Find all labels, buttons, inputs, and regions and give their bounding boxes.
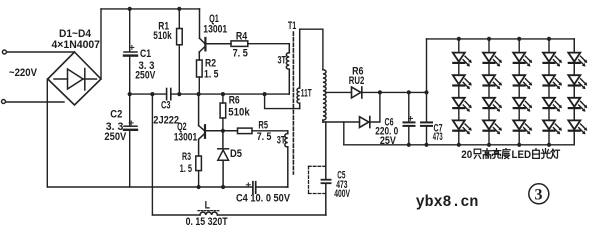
circled 3: [529, 184, 549, 204]
LED D13 col2 row4: [483, 120, 502, 134]
wire bottom rail (left section): [47, 186, 252, 188]
wire mid line right segment: [171, 93, 289, 95]
svg-text:C1: C1: [140, 48, 151, 60]
winding 3T upper (Q1 feedback): [286, 44, 289, 94]
terminal top-left (AC input 1): [2, 50, 6, 54]
wire AC1 to bridge top vertex: [7, 51, 75, 53]
LED D21 col4 row4: [543, 120, 562, 134]
wire bus C1 to mid: [129, 56, 131, 126]
LED D6 col1 row1: [453, 53, 472, 67]
nodes LED bottom rail: [457, 143, 461, 147]
svg-text:400V: 400V: [334, 188, 350, 200]
svg-text:T1: T1: [288, 20, 296, 32]
svg-text:D5: D5: [230, 148, 242, 160]
wire top link 11T to secondary: [300, 29, 323, 69]
node bottom rail / D5: [221, 185, 225, 189]
wire bottom-right rail: [344, 144, 575, 146]
svg-text:1. 5: 1. 5: [204, 68, 219, 80]
LED D11 col2 row2: [483, 75, 502, 89]
node mid / R6: [221, 92, 225, 96]
node mid / R1: [177, 92, 181, 96]
svg-text:RU2: RU2: [349, 75, 365, 87]
wire tap1 to diode RU2: [326, 91, 352, 93]
LED D20 col4 row3: [543, 98, 562, 112]
svg-text:2J222: 2J222: [153, 115, 179, 127]
wire LED column: [488, 39, 490, 145]
LED D23 col5 row2: [568, 75, 587, 89]
node bottom rail / R3: [197, 185, 201, 189]
node top rail / C1 bus: [128, 7, 132, 11]
capacitor C7: [426, 92, 428, 122]
char 白: [533, 149, 540, 159]
svg-text:R4: R4: [236, 30, 248, 42]
capacitor C5 (dashed optional): [322, 122, 331, 215]
LED D7 col1 row2: [453, 75, 472, 89]
svg-text:7. 5: 7. 5: [257, 131, 272, 143]
node Q2 base / R6 / D5: [221, 129, 225, 133]
resistor R5: [238, 128, 253, 134]
svg-text:~220V: ~220V: [9, 67, 38, 79]
wire L branch vertical: [151, 94, 153, 215]
svg-text:13001: 13001: [203, 24, 227, 36]
LED D25 col5 row4: [568, 120, 587, 134]
LED D9 col1 row4: [453, 120, 472, 134]
resistor R4: [231, 41, 248, 47]
node rail1 / lower diode: [378, 90, 382, 94]
transistor Q1: [199, 9, 231, 60]
wire 11T bottom to mid node: [265, 94, 300, 109]
svg-text:1. 5: 1. 5: [180, 163, 192, 175]
capacitor C2: [124, 121, 137, 130]
LED D10 col2 row1: [483, 53, 502, 67]
inductor L: [200, 212, 217, 215]
diode R6 RU2: [352, 87, 362, 98]
wire tap2 tee down to bottom-right rail: [343, 122, 345, 145]
svg-text:R5: R5: [258, 120, 268, 132]
node mid line / L branch: [150, 92, 154, 96]
diode lower: [360, 117, 370, 128]
nodes LED top rail: [457, 37, 461, 41]
svg-text:LED: LED: [512, 149, 532, 161]
node mid / Q1 emitter R2 and Q2 collector: [197, 92, 201, 96]
LED D19 col4 row2: [543, 75, 562, 89]
wire C1-C2 bus upper: [129, 9, 131, 52]
node mid / 11T return: [263, 92, 267, 96]
wire rail1: [362, 91, 427, 93]
winding 3T lower (Q2 feedback): [285, 131, 288, 187]
wire LED column: [573, 39, 575, 145]
wire lower diode up to rail1: [370, 92, 380, 122]
winding secondary: [323, 70, 326, 122]
svg-text:C2: C2: [110, 108, 122, 120]
winding 11T: [297, 29, 300, 108]
wire lower line with L: [152, 214, 200, 216]
char 只: [474, 149, 481, 158]
svg-text:4×1N4007: 4×1N4007: [52, 39, 101, 51]
LED columns: [459, 39, 575, 145]
capacitor C1: [124, 45, 137, 55]
transformer core (dashed): [292, 32, 294, 174]
char 灯: [551, 149, 560, 158]
LED D24 col5 row3: [568, 98, 587, 112]
transistor Q2: [199, 94, 238, 156]
LED D14 col3 row1: [513, 53, 532, 67]
wire tap2 to lower diode: [323, 121, 360, 123]
svg-text:20: 20: [461, 149, 472, 161]
svg-text:250V: 250V: [135, 70, 156, 82]
LED D8 col1 row3: [453, 98, 472, 112]
wire LED column: [518, 39, 520, 145]
svg-text:3T: 3T: [278, 54, 287, 66]
wire bridge left vertex down to bottom rail: [46, 79, 48, 187]
svg-text:7. 5: 7. 5: [233, 47, 248, 59]
svg-text:L: L: [205, 199, 211, 211]
char 度: [502, 149, 510, 159]
bridge inner diode: [54, 69, 97, 91]
diode D5: [218, 131, 229, 187]
svg-text:25V: 25V: [380, 135, 397, 147]
node top rail / R1: [177, 7, 181, 11]
wire LED right column: [573, 39, 575, 145]
capacitor C4 (in bottom rail): [246, 182, 255, 194]
char 光: [541, 149, 549, 159]
resistor R2: [197, 60, 203, 77]
char 高: [483, 149, 491, 159]
wire LED feed up: [426, 39, 428, 93]
svg-text:3: 3: [535, 187, 543, 204]
svg-text:13001: 13001: [174, 132, 198, 144]
LED D22 col5 row1: [568, 53, 587, 67]
svg-text:C4 10. 0 50V: C4 10. 0 50V: [236, 192, 291, 204]
svg-text:473: 473: [433, 131, 443, 143]
LED D16 col3 row3: [513, 98, 532, 112]
capacitor C6: [408, 92, 410, 122]
svg-text:510k: 510k: [228, 107, 250, 119]
LED D15 col3 row2: [513, 75, 532, 89]
node mid line / bus: [128, 92, 132, 96]
LED D17 col3 row4: [513, 120, 532, 134]
char 亮: [492, 149, 500, 159]
wire LED column: [548, 39, 550, 145]
wire bridge right vertex up to top rail: [100, 9, 102, 79]
capacitor C3: [167, 89, 171, 100]
wire bus C2 to bottom rail: [129, 130, 131, 187]
wire LED top rail: [427, 38, 575, 40]
svg-text:R6: R6: [229, 94, 240, 106]
terminal bottom-left (AC input 2): [2, 100, 6, 104]
svg-text:R3: R3: [182, 151, 191, 163]
bridge rectifier D1~D4 diamond: [48, 52, 101, 105]
svg-text:0. 15 320T: 0. 15 320T: [186, 216, 228, 228]
resistor R6 (510k): [222, 94, 224, 103]
resistor R3: [196, 156, 202, 171]
LED D12 col2 row3: [483, 98, 502, 112]
LED D18 col4 row1: [543, 53, 562, 67]
wire top rail: [101, 8, 200, 10]
svg-text:11T: 11T: [301, 88, 312, 100]
resistor R1: [178, 9, 180, 29]
svg-text:250V: 250V: [104, 131, 126, 143]
svg-text:510k: 510k: [153, 30, 172, 42]
svg-text:C3: C3: [161, 100, 171, 112]
svg-text:ybx8.cn: ybx8.cn: [416, 193, 479, 211]
wire LED column: [458, 39, 460, 145]
wire mid line left segment: [130, 93, 166, 95]
wire AC2: [6, 101, 64, 103]
